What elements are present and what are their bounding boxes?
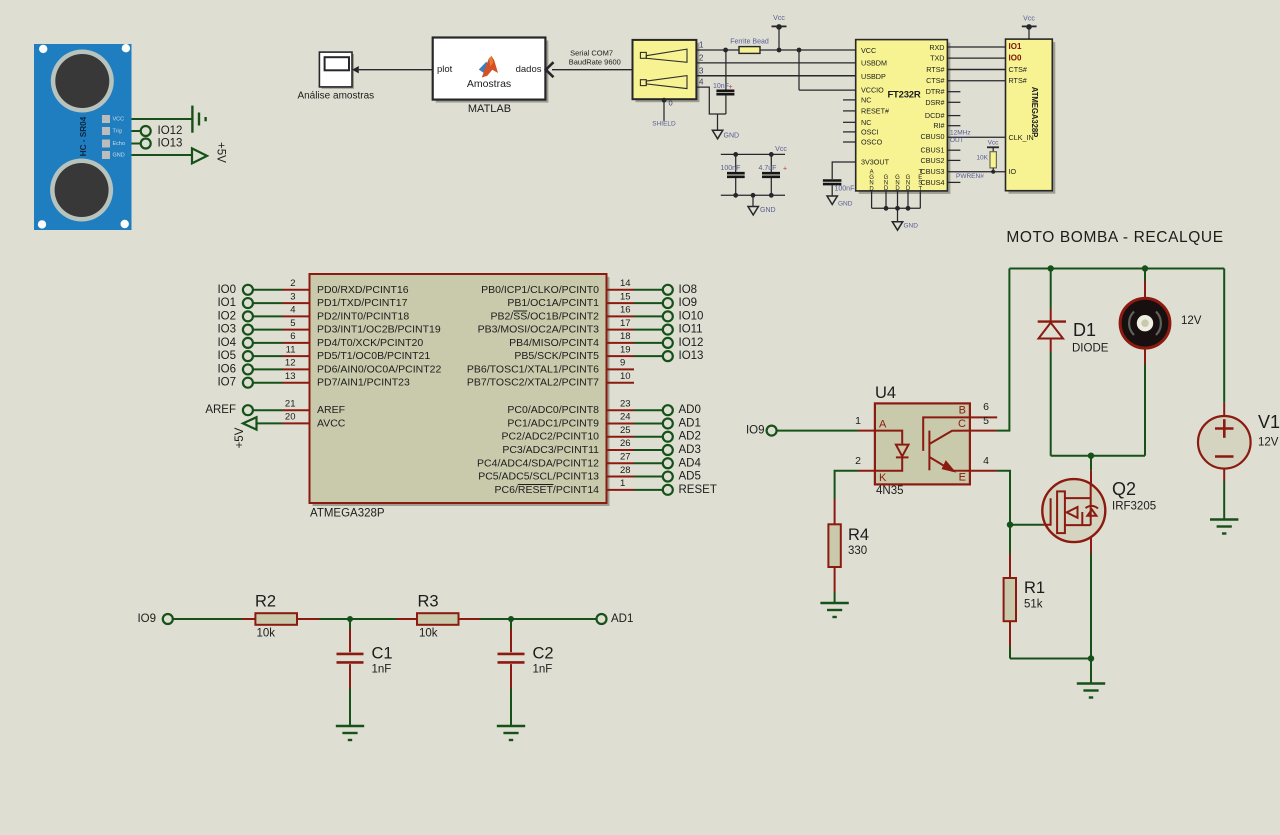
junction C2 — [508, 616, 514, 622]
scope block Análise amostras — [297, 52, 374, 102]
svg-text:9: 9 — [620, 358, 625, 369]
svg-text:26: 26 — [620, 438, 631, 449]
svg-text:PD7/AIN1/PCINT23: PD7/AIN1/PCINT23 — [317, 377, 410, 389]
mosfet Q2 IRF3205 — [1042, 456, 1156, 659]
top rail +12V — [1009, 268, 1224, 270]
wire U4 pin5 up to rail — [996, 269, 1009, 431]
svg-text:PD0/RXD/PCINT16: PD0/RXD/PCINT16 — [317, 284, 409, 296]
pin PC6 (1) + terminal RESET — [495, 478, 717, 496]
svg-text:AD1: AD1 — [679, 417, 701, 429]
junction drain — [1088, 453, 1094, 459]
svg-text:+5V: +5V — [234, 427, 246, 448]
USB pin numbers 1-4 — [699, 41, 704, 87]
svg-text:+: + — [783, 166, 787, 173]
terminal IO13 — [141, 139, 151, 149]
svg-text:20: 20 — [285, 412, 296, 423]
svg-text:USBDM: USBDM — [861, 59, 887, 68]
pin PC3 (26) + terminal AD3 — [502, 438, 701, 456]
gnd triangle (FT232R) — [892, 222, 902, 231]
svg-text:IO9: IO9 — [679, 297, 698, 309]
wire GND to +5V — [132, 154, 193, 156]
FT232R NC/RESET/OSC stubs — [843, 100, 856, 142]
wire Trig — [132, 130, 141, 132]
pin PB5 (19) + terminal IO13 — [514, 344, 703, 362]
pin PD6 (12) + terminal IO6 — [217, 358, 441, 376]
ground C2 — [497, 726, 525, 740]
svg-text:12V: 12V — [1258, 437, 1279, 449]
ground Q2 source — [1077, 684, 1105, 698]
svg-text:1nF: 1nF — [533, 664, 553, 676]
svg-text:18: 18 — [620, 331, 631, 342]
svg-text:IO5: IO5 — [217, 350, 236, 362]
pin PB0 (14) + terminal IO8 — [481, 278, 697, 296]
svg-text:25: 25 — [620, 425, 631, 436]
capacitor 10nF — [725, 50, 727, 90]
svg-text:3: 3 — [290, 291, 295, 302]
terminal IO9 (filter input) — [163, 614, 173, 624]
svg-text:DSR#: DSR# — [925, 98, 944, 107]
svg-text:SHIELD: SHIELD — [652, 120, 676, 127]
svg-text:17: 17 — [620, 318, 631, 329]
junction gate/R1 — [1007, 522, 1013, 528]
source V1 12V — [1198, 269, 1280, 520]
resistor R3 10k — [397, 593, 481, 640]
junction VCCIO — [797, 48, 802, 53]
svg-text:AD3: AD3 — [679, 444, 701, 456]
svg-text:19: 19 — [620, 344, 631, 355]
svg-text:23: 23 — [620, 398, 631, 409]
motor 12V — [1120, 269, 1202, 456]
svg-text:IO11: IO11 — [679, 324, 703, 336]
pin 2 cathode — [858, 470, 875, 472]
resistor 10K pull-up — [976, 139, 999, 173]
wire R3 to AD1 — [480, 618, 597, 620]
ground (rotated) on VCC — [192, 106, 205, 133]
svg-text:PB2/SS/OC1B/PCINT2: PB2/SS/OC1B/PCINT2 — [490, 310, 599, 322]
svg-text:RXD: RXD — [929, 43, 944, 52]
capacitor C2 1nF — [498, 619, 554, 726]
svg-text:0: 0 — [669, 99, 673, 108]
svg-text:BaudRate 9600: BaudRate 9600 — [569, 57, 621, 66]
svg-text:U4: U4 — [875, 384, 896, 402]
gnd rail + triangle — [721, 194, 785, 196]
MATLAB logo — [479, 56, 498, 78]
pin PD1 (3) + terminal IO1 — [217, 291, 407, 309]
svg-text:R1: R1 — [1024, 579, 1045, 597]
resistor R1 51k — [1004, 525, 1091, 659]
svg-text:AVCC: AVCC — [317, 417, 346, 429]
svg-text:IO: IO — [1009, 167, 1017, 176]
svg-text:Q2: Q2 — [1112, 479, 1136, 499]
pin PB7 (10) stub — [467, 371, 634, 389]
svg-text:IO12: IO12 — [679, 337, 704, 349]
pin AREF (21) + terminal AREF — [205, 398, 345, 416]
pin 1 anode — [858, 430, 875, 432]
overline SS (PB2) — [513, 310, 527, 312]
capacitor 100nF (3V3OUT) — [823, 181, 842, 185]
svg-text:IO1: IO1 — [1009, 42, 1022, 51]
svg-text:D1: D1 — [1073, 320, 1096, 340]
svg-text:CBUS0: CBUS0 — [921, 132, 945, 141]
svg-text:RTS#: RTS# — [1009, 76, 1027, 85]
svg-text:AREF: AREF — [317, 404, 345, 416]
svg-text:GND: GND — [904, 223, 919, 230]
svg-text:IRF3205: IRF3205 — [1112, 501, 1156, 513]
pin PB3 (17) + terminal IO11 — [478, 318, 703, 336]
junction Vcc — [777, 48, 782, 53]
svg-text:V1: V1 — [1258, 412, 1280, 432]
svg-text:1nF: 1nF — [372, 664, 392, 676]
svg-text:10: 10 — [620, 371, 631, 382]
svg-text:PB1/OC1A/PCINT1: PB1/OC1A/PCINT1 — [507, 297, 599, 309]
svg-text:RESET: RESET — [679, 484, 717, 496]
svg-text:21: 21 — [285, 398, 296, 409]
svg-text:AREF: AREF — [205, 404, 236, 416]
svg-text:IO7: IO7 — [217, 377, 236, 389]
svg-text:IO0: IO0 — [1009, 54, 1022, 63]
wire TXD to IO0 — [947, 57, 1005, 59]
svg-text:RTS#: RTS# — [926, 65, 944, 74]
svg-text:Echo: Echo — [113, 141, 126, 147]
pin PD7 (13) + terminal IO7 — [217, 371, 409, 389]
wire J1 pin3 USBDP — [696, 75, 855, 77]
wire dados to J1 + serial labels — [552, 69, 633, 71]
wire RXD to IO1 — [947, 46, 1005, 48]
svg-text:PD6/AIN0/OC0A/PCINT22: PD6/AIN0/OC0A/PCINT22 — [317, 363, 441, 375]
svg-text:USBDP: USBDP — [861, 72, 886, 81]
sensor HC-SR04 board — [34, 44, 132, 230]
wire VCCIO branch — [798, 50, 800, 90]
IC FT232R — [856, 40, 951, 194]
ground C1 — [336, 726, 364, 740]
svg-text:VCC: VCC — [861, 46, 876, 55]
overline RESET (PC6) — [518, 484, 554, 486]
svg-text:NC: NC — [861, 95, 871, 104]
svg-text:PB5/SCK/PCINT5: PB5/SCK/PCINT5 — [514, 350, 599, 362]
IC ATMEGA328P (main) — [310, 274, 610, 520]
svg-text:Amostras: Amostras — [467, 78, 511, 90]
svg-text:13: 13 — [285, 371, 296, 382]
svg-text:PB7/TOSC2/XTAL2/PCINT7: PB7/TOSC2/XTAL2/PCINT7 — [467, 377, 599, 389]
svg-text:16: 16 — [620, 305, 631, 316]
svg-text:28: 28 — [620, 465, 631, 476]
ferrite bead — [739, 47, 760, 54]
svg-text:PD4/T0/XCK/PCINT20: PD4/T0/XCK/PCINT20 — [317, 337, 423, 349]
svg-text:6: 6 — [290, 331, 295, 342]
svg-text:10k: 10k — [257, 628, 276, 640]
svg-text:PC2/ADC2/PCINT10: PC2/ADC2/PCINT10 — [502, 431, 600, 443]
svg-text:4N35: 4N35 — [876, 485, 904, 497]
svg-text:VCCIO: VCCIO — [861, 86, 884, 95]
svg-text:MATLAB: MATLAB — [468, 103, 511, 115]
svg-text:B: B — [959, 405, 966, 417]
pin PC2 (25) + terminal AD2 — [502, 425, 701, 443]
svg-text:PD1/TXD/PCINT17: PD1/TXD/PCINT17 — [317, 297, 408, 309]
svg-text:PD2/INT0/PCINT18: PD2/INT0/PCINT18 — [317, 310, 409, 322]
pin 4 emitter — [970, 470, 997, 472]
svg-text:51k: 51k — [1024, 599, 1043, 611]
svg-text:4: 4 — [983, 455, 989, 467]
svg-text:Vcc: Vcc — [773, 15, 785, 22]
svg-text:27: 27 — [620, 451, 631, 462]
capacitor 100nF — [735, 154, 737, 172]
shield pin 0 — [663, 99, 665, 121]
svg-text:PC4/ADC4/SDA/PCINT12: PC4/ADC4/SDA/PCINT12 — [477, 457, 599, 469]
svg-text:C1: C1 — [372, 645, 393, 663]
svg-text:E: E — [959, 472, 966, 484]
svg-text:IO0: IO0 — [217, 284, 236, 296]
gnd arrow (J1 pin4) — [717, 114, 719, 130]
power rail Vcc (decoupling) — [721, 153, 785, 155]
svg-text:330: 330 — [848, 545, 867, 557]
svg-text:10K: 10K — [976, 155, 988, 162]
svg-text:10k: 10k — [419, 628, 438, 640]
pin PD4 (6) + terminal IO4 — [217, 331, 423, 349]
resistor R4 330 — [828, 499, 869, 603]
svg-text:PC3/ADC3/PCINT11: PC3/ADC3/PCINT11 — [502, 444, 599, 456]
svg-text:RESET#: RESET# — [861, 106, 889, 115]
svg-text:TXD: TXD — [930, 54, 944, 63]
svg-text:2: 2 — [699, 53, 704, 62]
pin PD2 (4) + terminal IO2 — [217, 305, 409, 323]
svg-text:+: + — [729, 84, 733, 91]
svg-text:PB0/ICP1/CLKO/PCINT0: PB0/ICP1/CLKO/PCINT0 — [481, 284, 599, 296]
resistor R2 10k — [242, 593, 319, 640]
wire CBUS3 to IO (PWREN#) — [947, 171, 1005, 173]
svg-text:DTR#: DTR# — [926, 87, 945, 96]
terminal AD1 — [597, 614, 607, 624]
svg-text:4.7uF: 4.7uF — [759, 165, 777, 172]
terminal IO12 — [141, 126, 151, 136]
svg-text:CBUS2: CBUS2 — [921, 156, 945, 165]
wire U4 pin4 to gate junction — [996, 471, 1010, 525]
svg-text:RI#: RI# — [933, 121, 944, 130]
junction D1 top — [1048, 265, 1054, 271]
svg-text:OSCI: OSCI — [861, 127, 879, 136]
pin AVCC (20) + power +5V arrow — [234, 412, 346, 449]
svg-text:1: 1 — [699, 41, 704, 50]
svg-text:AD1: AD1 — [611, 613, 633, 625]
svg-text:PB6/TOSC1/XTAL1/PCINT6: PB6/TOSC1/XTAL1/PCINT6 — [467, 363, 599, 375]
power Vcc (ATMEGA) — [1028, 26, 1030, 39]
svg-text:12: 12 — [285, 358, 296, 369]
svg-text:10nF: 10nF — [713, 83, 729, 90]
pin PB1 (15) + terminal IO9 — [507, 291, 697, 309]
svg-text:MOTO BOMBA - RECALQUE: MOTO BOMBA - RECALQUE — [1006, 229, 1223, 246]
svg-text:IO3: IO3 — [217, 324, 236, 336]
svg-text:AD4: AD4 — [679, 457, 702, 469]
svg-text:Análise amostras: Análise amostras — [297, 91, 374, 102]
pin PB4 (18) + terminal IO12 — [509, 331, 703, 349]
svg-text:IO10: IO10 — [679, 310, 704, 322]
svg-text:3V3OUT: 3V3OUT — [861, 158, 890, 167]
wire CTS# to RTS# — [947, 80, 1005, 82]
wire J1 pin1 to ferrite bead — [696, 49, 739, 51]
junction pin1/cap — [723, 48, 728, 53]
svg-text:OUT: OUT — [950, 137, 964, 144]
svg-text:DCD#: DCD# — [925, 111, 945, 120]
svg-text:Ferrite Bead: Ferrite Bead — [730, 39, 769, 46]
svg-text:Vcc: Vcc — [1023, 16, 1035, 23]
internal LED — [875, 431, 909, 471]
wire J1 pin2 USBDM — [696, 62, 855, 64]
pin PD5 (11) + terminal IO5 — [217, 344, 430, 362]
svg-text:PD3/INT1/OC2B/PCINT19: PD3/INT1/OC2B/PCINT19 — [317, 324, 441, 336]
svg-text:plot: plot — [437, 64, 453, 75]
svg-text:Vcc: Vcc — [988, 139, 1000, 146]
svg-text:PB4/MISO/PCINT4: PB4/MISO/PCINT4 — [509, 337, 599, 349]
wire to ground — [1090, 659, 1092, 684]
junction motor top — [1142, 265, 1148, 271]
internal phototransistor — [923, 417, 970, 471]
pin PC0 (23) + terminal AD0 — [507, 398, 700, 416]
wire VCC to ground — [132, 118, 193, 120]
svg-text:FT232R: FT232R — [887, 90, 920, 101]
svg-text:GND: GND — [838, 201, 853, 208]
connector J1 USB — [633, 40, 700, 102]
svg-text:ATMEGA328P: ATMEGA328P — [1030, 87, 1039, 137]
capacitor C1 1nF — [337, 619, 393, 726]
pin PD3 (5) + terminal IO3 — [217, 318, 440, 336]
wire J1 pin4 to gnd — [696, 87, 726, 114]
svg-text:2: 2 — [290, 278, 295, 289]
junction source/R1/gnd — [1088, 655, 1094, 661]
svg-text:1: 1 — [855, 415, 861, 427]
svg-text:PC5/ADC5/SCL/PCINT13: PC5/ADC5/SCL/PCINT13 — [478, 471, 599, 483]
svg-text:Serial COM7: Serial COM7 — [570, 48, 613, 57]
svg-text:CTS#: CTS# — [926, 76, 944, 85]
optocoupler U4 4N35 — [855, 384, 997, 497]
svg-text:IO2: IO2 — [217, 310, 236, 322]
svg-text:AD5: AD5 — [679, 471, 701, 483]
capacitor 4.7uF — [770, 154, 772, 172]
svg-text:CBUS4: CBUS4 — [921, 178, 945, 187]
pin PD0 (2) + terminal IO0 — [217, 278, 408, 296]
svg-text:CTS#: CTS# — [1009, 65, 1027, 74]
svg-text:IO13: IO13 — [679, 350, 704, 362]
svg-text:OSCO: OSCO — [861, 138, 883, 147]
svg-text:14: 14 — [620, 278, 631, 289]
svg-text:15: 15 — [620, 291, 631, 302]
svg-text:11: 11 — [286, 344, 296, 355]
junction C1 — [347, 616, 353, 622]
pin 6 base stub — [970, 416, 997, 418]
svg-text:dados: dados — [516, 64, 542, 75]
FT232R bottom gnd bus — [872, 191, 921, 222]
svg-text:3: 3 — [699, 66, 704, 75]
pin PB2 (16) + terminal IO10 — [490, 305, 703, 323]
sensor pin pads VCC Trig Echo GND — [102, 115, 125, 159]
svg-text:4: 4 — [290, 305, 295, 316]
svg-text:GND: GND — [113, 153, 125, 159]
svg-text:VCC: VCC — [113, 117, 125, 123]
svg-text:ATMEGA328P: ATMEGA328P — [310, 508, 385, 520]
svg-text:+5V: +5V — [214, 142, 226, 163]
svg-text:PWREN#: PWREN# — [956, 173, 984, 180]
svg-text:6: 6 — [983, 401, 989, 413]
svg-text:PC0/ADC0/PCINT8: PC0/ADC0/PCINT8 — [507, 404, 599, 416]
svg-text:AD0: AD0 — [679, 404, 701, 416]
svg-text:NC: NC — [861, 118, 871, 127]
svg-text:A: A — [879, 419, 887, 431]
terminal IO9 (U4 input) — [767, 426, 777, 436]
svg-text:C: C — [958, 418, 966, 430]
svg-text:IO1: IO1 — [217, 297, 236, 309]
svg-text:C2: C2 — [533, 645, 554, 663]
svg-text:IO12: IO12 — [158, 125, 183, 137]
svg-text:100nF: 100nF — [721, 165, 741, 172]
wire U4 pin2 to R4 — [835, 471, 858, 499]
wire 3V3OUT to cap — [832, 162, 856, 179]
wire IO9 to R2 — [173, 618, 242, 620]
svg-text:CBUS1: CBUS1 — [921, 146, 945, 155]
wire CBUS0 to CLK_IN (12MHz OUT) — [947, 136, 1005, 138]
wire RTS# to CTS# — [947, 69, 1005, 71]
block MATLAB Amostras — [433, 38, 549, 103]
wire R2 to junction — [319, 618, 397, 620]
input arrowhead dados — [546, 62, 554, 77]
gate wire — [1010, 524, 1043, 526]
svg-text:5: 5 — [983, 415, 989, 427]
svg-text:R3: R3 — [418, 593, 439, 611]
svg-text:1: 1 — [620, 478, 625, 489]
svg-text:12V: 12V — [1181, 315, 1202, 327]
pin 5 collector — [970, 430, 997, 432]
svg-text:CBUS3: CBUS3 — [921, 167, 945, 176]
pin PB6 (9) stub — [467, 358, 634, 376]
IC ATMEGA328P (USB bridge) — [1006, 39, 1056, 194]
power Vcc top — [778, 26, 780, 50]
svg-text:K: K — [879, 472, 887, 484]
svg-text:GND: GND — [724, 133, 740, 140]
power terminal +5V (arrow right) — [192, 148, 207, 163]
svg-text:R2: R2 — [255, 593, 276, 611]
gnd triangle (3V3OUT cap) — [827, 196, 837, 205]
svg-text:PB3/MOSI/OC2A/PCINT3: PB3/MOSI/OC2A/PCINT3 — [478, 324, 600, 336]
svg-text:Trig: Trig — [113, 129, 122, 135]
svg-text:IO8: IO8 — [679, 284, 698, 296]
svg-text:Vcc: Vcc — [775, 146, 787, 153]
pin PC4 (27) + terminal AD4 — [477, 451, 701, 469]
svg-text:24: 24 — [620, 412, 631, 423]
ground R4 — [820, 603, 848, 617]
wire scope to MATLAB plot + arrowhead — [352, 66, 359, 73]
wire IO9 to U4 pin1 — [777, 430, 858, 432]
svg-text:IO4: IO4 — [217, 337, 236, 349]
pin PC5 (28) + terminal AD5 — [478, 465, 701, 483]
svg-text:12MHz: 12MHz — [950, 130, 971, 137]
svg-text:R4: R4 — [848, 526, 869, 544]
svg-text:IO13: IO13 — [158, 138, 183, 150]
svg-text:PD5/T1/OC0B/PCINT21: PD5/T1/OC0B/PCINT21 — [317, 350, 430, 362]
bottom wire D1-motor — [1051, 455, 1145, 457]
svg-text:4: 4 — [699, 78, 704, 87]
wire ferrite to FT232R VCC — [760, 49, 856, 51]
svg-text:IO9: IO9 — [137, 613, 156, 625]
svg-text:AD2: AD2 — [679, 431, 701, 443]
svg-text:5: 5 — [290, 318, 295, 329]
svg-text:PC6/RESET/PCINT14: PC6/RESET/PCINT14 — [495, 484, 600, 496]
svg-text:2: 2 — [855, 455, 861, 467]
svg-text:GND: GND — [760, 207, 776, 214]
diode D1 — [1038, 269, 1109, 456]
svg-text:HC - SR04: HC - SR04 — [79, 116, 88, 156]
svg-text:IO9: IO9 — [746, 425, 765, 437]
FT232R right stubs — [947, 92, 960, 183]
svg-text:100nF: 100nF — [835, 185, 855, 192]
svg-text:IO6: IO6 — [217, 363, 236, 375]
pin PC1 (24) + terminal AD1 — [507, 412, 700, 430]
